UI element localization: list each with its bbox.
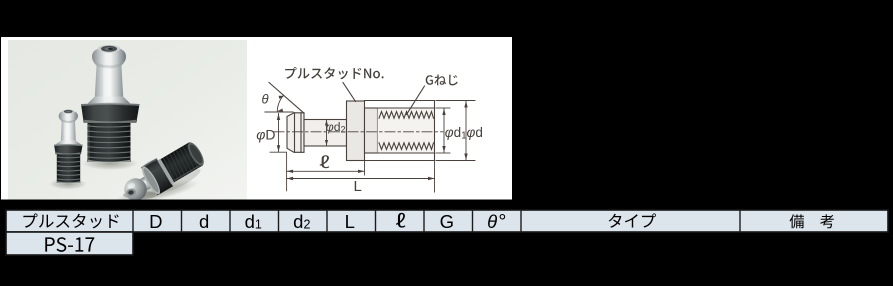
svg-text:D: D <box>149 211 162 232</box>
svg-text:θ°: θ° <box>487 211 506 233</box>
svg-text:L: L <box>345 211 355 232</box>
svg-text:φD: φD <box>256 126 275 142</box>
svg-text:φd: φd <box>467 125 483 140</box>
svg-text:G: G <box>440 211 454 232</box>
svg-text:d: d <box>199 211 209 232</box>
svg-text:L: L <box>354 178 362 195</box>
svg-text:θ: θ <box>262 92 269 107</box>
